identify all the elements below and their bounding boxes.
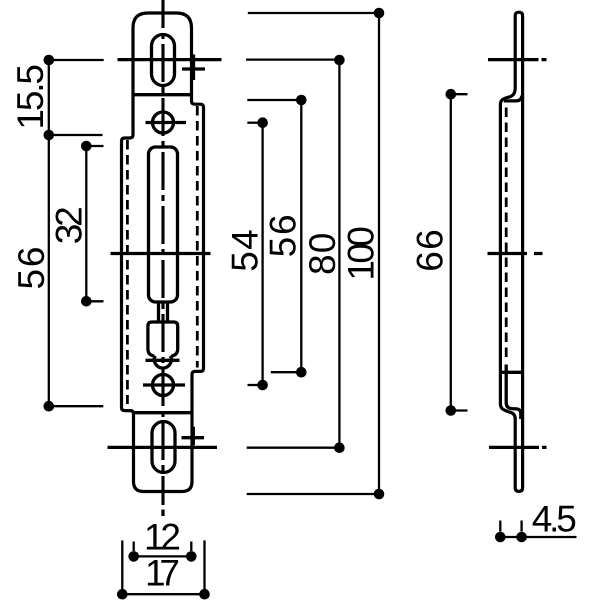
bottom fold edge line	[134, 411, 193, 414]
dim dots 56 right	[296, 95, 307, 378]
extension tick 56 top	[247, 99, 301, 101]
bottom oval slot	[152, 422, 175, 473]
centerline vertical of front view	[161, 0, 164, 505]
bottom screw hole crosshair	[143, 383, 185, 386]
bottom screw hole	[153, 375, 174, 396]
top oval slot	[152, 35, 175, 86]
extension tick 4.5 right	[520, 521, 522, 532]
dim dots 100	[374, 8, 385, 500]
top screw hole crosshair	[146, 121, 187, 124]
svg-text:56: 56	[11, 247, 52, 290]
svg-text:17: 17	[145, 553, 180, 594]
svg-text:56: 56	[262, 214, 303, 257]
dimension 32 line	[85, 146, 87, 301]
plate mid centerline horizontal	[111, 252, 211, 255]
svg-text:80: 80	[302, 233, 343, 275]
extension tick 66 bottom	[451, 409, 468, 411]
dimension 100 line	[378, 13, 380, 494]
extension tick 100 bottom	[247, 493, 379, 495]
long latch slot	[149, 147, 178, 302]
extension tick at y=301	[86, 300, 103, 302]
svg-text:4.5: 4.5	[532, 499, 577, 540]
small cross bottom right (flange hole center)	[182, 427, 205, 446]
extension tick at y=146	[86, 145, 103, 147]
side view outline	[500, 12, 522, 491]
extension tick 80 top	[246, 58, 339, 60]
svg-text:12: 12	[144, 516, 181, 557]
dim dots left line	[44, 55, 55, 412]
side view hidden line (dashed)	[505, 108, 508, 359]
top fold edge line	[133, 93, 192, 96]
extension tick 56 bottom	[271, 371, 302, 373]
extension tick at y=135	[49, 134, 103, 136]
extension tick 4.5 left	[499, 521, 501, 532]
dimension 15.5/56 line left	[48, 60, 50, 406]
side view mid centerline	[488, 252, 543, 255]
side view step line	[500, 371, 522, 374]
strike plate outline (front view)	[122, 13, 204, 492]
svg-text:32: 32	[49, 206, 90, 244]
dimension 66 line	[450, 94, 452, 410]
dim dots 12	[128, 551, 196, 562]
extension line 17 left	[121, 540, 123, 594]
extension tick 80 bottom	[247, 447, 340, 449]
top screw hole	[153, 112, 174, 133]
extension tick at y=406	[49, 405, 104, 407]
side view bottom bend inner edge	[506, 365, 521, 420]
side view bottom crosshair	[489, 446, 547, 449]
dimension 80 line	[338, 60, 340, 448]
dim dots 54	[257, 117, 268, 390]
svg-text:15.5: 15.5	[10, 64, 51, 130]
hidden bend line right (dashed)	[196, 106, 199, 368]
extension tick 66 top	[451, 93, 468, 95]
dim dots 17	[117, 589, 210, 600]
side view top bend inner edge	[504, 96, 522, 101]
dim dots 32	[81, 141, 92, 307]
dimension 17 line	[122, 593, 204, 595]
dimension 56 right line	[300, 100, 302, 372]
extension tick 54 bottom	[248, 384, 263, 386]
dimension 4.5 line	[500, 536, 576, 538]
dimension 54 line	[261, 123, 263, 385]
extension line 17 right	[203, 540, 205, 594]
extension tick at y=60	[49, 59, 104, 61]
bottom oval centerline horizontal	[108, 446, 218, 449]
extension tick 54 top	[247, 122, 262, 124]
svg-text:66: 66	[410, 229, 451, 271]
tongue pocket	[148, 322, 178, 368]
dim dots 4.5	[495, 532, 527, 543]
dim dots 66	[446, 89, 457, 416]
centerline stub below 12 text	[161, 510, 164, 517]
extension tick 12 left	[133, 542, 135, 552]
extension tick 100 top	[248, 12, 379, 14]
side view top crosshair	[488, 58, 547, 61]
small cross top right (flange hole center)	[182, 55, 205, 81]
svg-text:54: 54	[224, 229, 265, 271]
neck lines below slot	[159, 303, 168, 323]
top oval centerline horizontal	[118, 58, 222, 61]
hidden bend line left (dashed)	[126, 140, 129, 404]
tongue crosshair	[146, 359, 180, 362]
svg-text:100: 100	[340, 226, 381, 280]
extension tick 12 right	[190, 542, 192, 552]
dim dots 80	[334, 55, 345, 453]
dimension 12 line	[134, 555, 192, 557]
